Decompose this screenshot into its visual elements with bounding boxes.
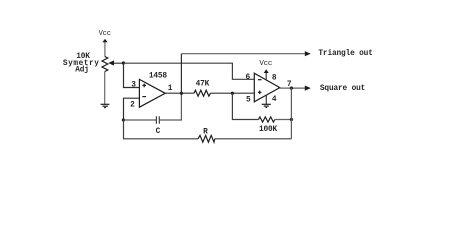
capacitor C wire left: [123, 119, 156, 121]
svg-text:1458: 1458: [149, 73, 168, 81]
ground (pot): [101, 104, 110, 107]
node C: U1A output junction: [180, 92, 183, 95]
svg-text:100K: 100K: [259, 126, 278, 134]
svg-text:4: 4: [272, 96, 277, 104]
wire 100K right to output vertical: [275, 119, 292, 121]
svg-text:R: R: [203, 128, 208, 136]
Vcc supply arrow (left): [102, 39, 107, 57]
wiper arrow: [108, 60, 123, 65]
plus sign U1A pin3 input: [142, 84, 146, 88]
node E: 100K right junction: [290, 118, 293, 121]
op-amp U1B (1458): [254, 73, 279, 102]
wire output node up to triangle-out rail: [180, 54, 182, 93]
Vcc supply arrow (U1B pin8): [264, 69, 269, 80]
wire wiper to pin6 of U1B: [123, 63, 254, 79]
svg-text:Vcc: Vcc: [259, 60, 272, 68]
svg-text:1: 1: [168, 85, 173, 93]
wire U1A output to 47K: [165, 92, 194, 94]
op-amp U1A (1458): [139, 79, 165, 107]
svg-text:3: 3: [131, 81, 136, 89]
node A: wiper junction: [122, 61, 125, 64]
resistor 100K: [259, 117, 275, 122]
bottom rail left segment: [124, 120, 199, 139]
minus sign U1B pin6 input: [258, 79, 262, 81]
capacitor C plates: [156, 116, 159, 124]
ground (U1B pin4): [262, 104, 271, 107]
wire node D down to 100K: [232, 93, 258, 119]
svg-text:Adj: Adj: [75, 67, 89, 75]
svg-text:47K: 47K: [196, 81, 210, 89]
resistor R: [198, 135, 215, 142]
wire wiper junction down to pin3 of U1A: [124, 63, 140, 88]
svg-text:5: 5: [246, 97, 251, 105]
node B: integrator input junction: [122, 118, 125, 121]
wire U1B output to square-out: [280, 87, 306, 89]
svg-text:7: 7: [287, 81, 292, 89]
square out arrow: [305, 86, 311, 91]
wire U1B pin4 to ground: [265, 95, 267, 104]
svg-text:Square out: Square out: [320, 85, 365, 93]
minus sign U1A pin2 input: [142, 96, 146, 98]
wire square node down to bottom rail: [290, 88, 292, 139]
svg-text:8: 8: [272, 75, 277, 83]
wire pin2 of U1A to C junction: [124, 98, 140, 120]
wire 47K right to pin5 of U1B: [211, 92, 255, 94]
svg-text:C: C: [156, 128, 161, 136]
node F: square output junction: [290, 87, 293, 90]
triangle out arrow: [305, 51, 311, 56]
wire pot bottom to ground: [104, 72, 106, 105]
capacitor C wire right, up to output node: [160, 93, 182, 120]
svg-text:Triangle out: Triangle out: [318, 50, 372, 58]
svg-text:2: 2: [130, 101, 135, 109]
potentiometer 10K Symetry Adj: [102, 57, 108, 72]
plus sign U1B pin5 input: [258, 91, 262, 95]
node D: comparator input junction: [231, 92, 234, 95]
resistor 47K: [194, 90, 211, 96]
triangle out rail: [181, 53, 306, 55]
bottom rail right segment: [215, 138, 292, 140]
svg-text:6: 6: [246, 74, 251, 82]
svg-text:Vcc: Vcc: [99, 30, 111, 38]
